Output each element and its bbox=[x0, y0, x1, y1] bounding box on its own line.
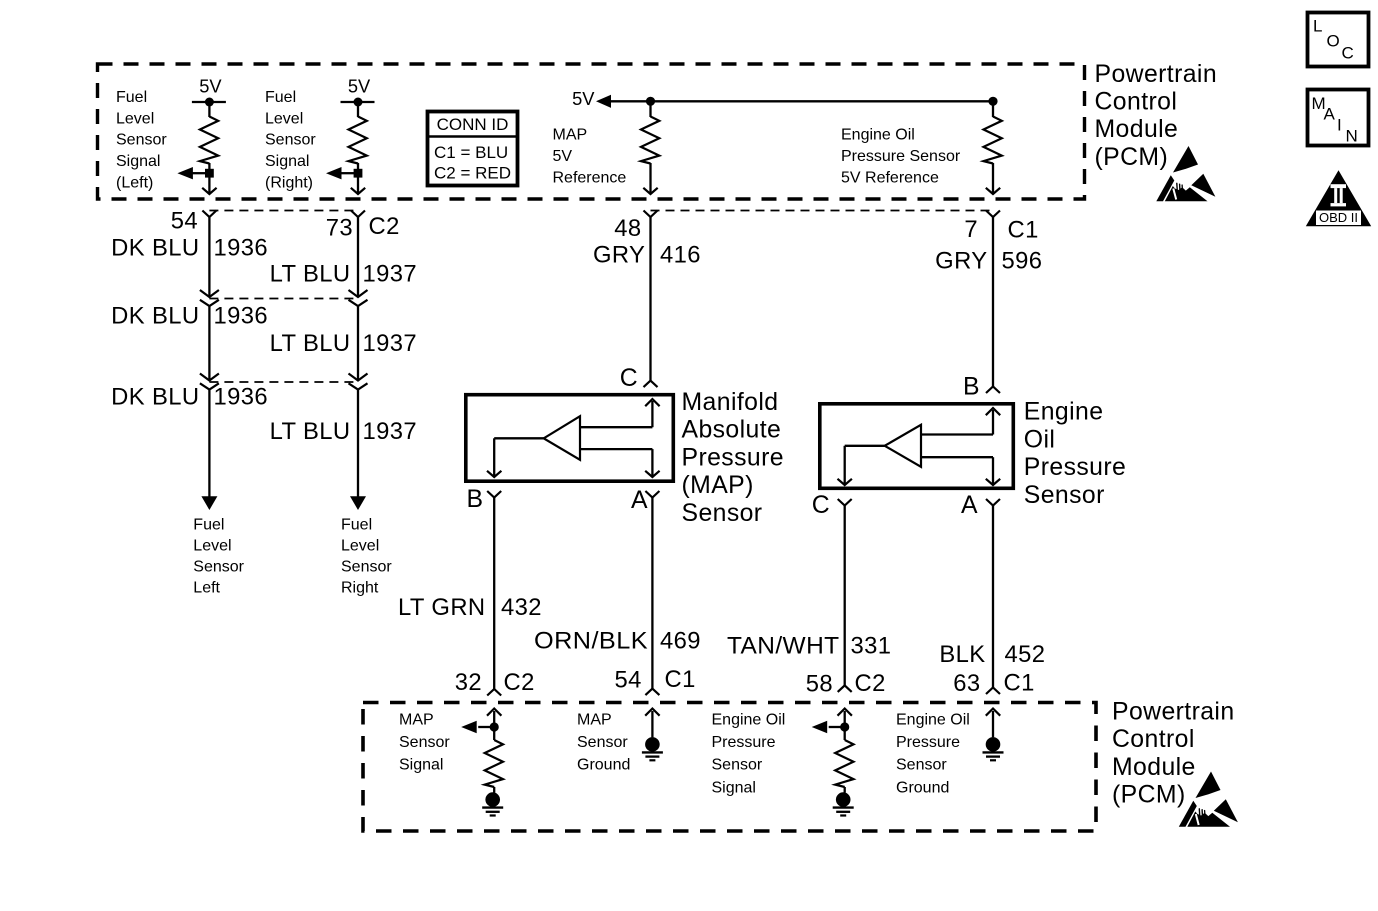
svg-text:DK BLU: DK BLU bbox=[111, 235, 199, 262]
svg-text:1937: 1937 bbox=[363, 261, 418, 288]
svg-text:Engine Oil: Engine Oil bbox=[841, 127, 915, 144]
svg-text:N: N bbox=[1346, 127, 1358, 146]
svg-text:Sensor: Sensor bbox=[712, 757, 763, 774]
svg-text:LT GRN: LT GRN bbox=[398, 594, 485, 621]
svg-text:469: 469 bbox=[660, 628, 701, 655]
svg-text:Pressure: Pressure bbox=[1024, 454, 1126, 481]
svg-text:B: B bbox=[467, 486, 484, 513]
svg-text:A: A bbox=[631, 487, 648, 514]
svg-text:Signal: Signal bbox=[265, 153, 309, 170]
svg-text:Signal: Signal bbox=[399, 757, 443, 774]
svg-text:Sensor: Sensor bbox=[116, 132, 167, 149]
svg-text:Fuel: Fuel bbox=[193, 516, 224, 533]
svg-text:GRY: GRY bbox=[935, 248, 987, 275]
svg-text:5V: 5V bbox=[572, 88, 595, 109]
svg-text:Reference: Reference bbox=[553, 169, 627, 186]
svg-text:Sensor: Sensor bbox=[896, 757, 947, 774]
svg-text:32: 32 bbox=[455, 669, 482, 696]
svg-text:O: O bbox=[1327, 32, 1340, 51]
svg-text:596: 596 bbox=[1002, 248, 1043, 275]
svg-text:1937: 1937 bbox=[363, 330, 418, 357]
svg-text:(PCM): (PCM) bbox=[1112, 782, 1186, 809]
svg-text:Engine Oil: Engine Oil bbox=[712, 712, 786, 729]
svg-text:(MAP): (MAP) bbox=[682, 472, 754, 499]
svg-text:OBD II: OBD II bbox=[1319, 210, 1358, 225]
svg-text:Pressure: Pressure bbox=[682, 444, 784, 471]
svg-text:1936: 1936 bbox=[214, 384, 269, 411]
svg-text:C2: C2 bbox=[504, 669, 535, 696]
svg-text:Right: Right bbox=[341, 579, 379, 596]
svg-text:1936: 1936 bbox=[214, 303, 269, 330]
svg-text:Level: Level bbox=[265, 110, 303, 127]
svg-text:LT BLU: LT BLU bbox=[270, 418, 351, 445]
svg-text:Level: Level bbox=[341, 537, 379, 554]
svg-text:MAP: MAP bbox=[553, 127, 588, 144]
svg-text:73: 73 bbox=[326, 215, 353, 242]
svg-text:Pressure: Pressure bbox=[896, 734, 960, 751]
svg-text:LT BLU: LT BLU bbox=[270, 330, 351, 357]
svg-text:TAN/WHT: TAN/WHT bbox=[727, 633, 840, 660]
svg-text:C: C bbox=[812, 492, 830, 519]
svg-text:Pressure Sensor: Pressure Sensor bbox=[841, 148, 961, 165]
svg-text:Absolute: Absolute bbox=[682, 417, 782, 444]
svg-text:Powertrain: Powertrain bbox=[1095, 61, 1218, 88]
svg-text:L: L bbox=[1313, 17, 1322, 36]
svg-text:C1 = BLU: C1 = BLU bbox=[434, 143, 508, 162]
svg-text:(Left): (Left) bbox=[116, 174, 153, 191]
svg-text:Fuel: Fuel bbox=[341, 516, 372, 533]
svg-text:ORN/BLK: ORN/BLK bbox=[534, 628, 648, 655]
svg-text:GRY: GRY bbox=[593, 242, 645, 269]
svg-text:Powertrain: Powertrain bbox=[1112, 699, 1235, 726]
svg-text:63: 63 bbox=[953, 670, 980, 697]
svg-text:MAP: MAP bbox=[399, 712, 434, 729]
svg-text:CONN ID: CONN ID bbox=[437, 115, 509, 134]
svg-text:54: 54 bbox=[615, 667, 642, 694]
svg-text:Engine Oil: Engine Oil bbox=[896, 712, 970, 729]
svg-text:Sensor: Sensor bbox=[577, 734, 628, 751]
svg-text:I: I bbox=[1337, 116, 1342, 135]
svg-text:BLK: BLK bbox=[939, 641, 985, 668]
svg-text:LT BLU: LT BLU bbox=[270, 261, 351, 288]
svg-text:C2 = RED: C2 = RED bbox=[434, 164, 511, 183]
svg-text:DK BLU: DK BLU bbox=[111, 303, 199, 330]
svg-text:Module: Module bbox=[1095, 116, 1179, 143]
svg-text:1937: 1937 bbox=[363, 418, 418, 445]
svg-text:Sensor: Sensor bbox=[399, 734, 450, 751]
svg-text:C: C bbox=[620, 365, 638, 392]
svg-text:Sensor: Sensor bbox=[265, 132, 316, 149]
svg-text:DK BLU: DK BLU bbox=[111, 384, 199, 411]
svg-text:C1: C1 bbox=[1008, 216, 1039, 243]
svg-text:54: 54 bbox=[171, 207, 198, 234]
svg-text:Fuel: Fuel bbox=[116, 89, 147, 106]
svg-text:Pressure: Pressure bbox=[712, 734, 776, 751]
svg-text:Ground: Ground bbox=[896, 779, 949, 796]
svg-text:Oil: Oil bbox=[1024, 426, 1056, 453]
svg-text:Ground: Ground bbox=[577, 757, 630, 774]
svg-text:C2: C2 bbox=[855, 670, 886, 697]
svg-text:Signal: Signal bbox=[116, 153, 160, 170]
svg-text:(PCM): (PCM) bbox=[1095, 144, 1169, 171]
svg-text:Left: Left bbox=[193, 579, 220, 596]
svg-text:Fuel: Fuel bbox=[265, 89, 296, 106]
svg-text:C1: C1 bbox=[1004, 670, 1035, 697]
svg-text:Level: Level bbox=[193, 537, 231, 554]
svg-text:7: 7 bbox=[964, 216, 978, 243]
svg-text:1936: 1936 bbox=[214, 235, 269, 262]
svg-text:Control: Control bbox=[1112, 726, 1195, 753]
svg-text:MAP: MAP bbox=[577, 712, 612, 729]
svg-text:Sensor: Sensor bbox=[1024, 482, 1105, 509]
svg-text:58: 58 bbox=[806, 670, 833, 697]
svg-text:5V Reference: 5V Reference bbox=[841, 169, 939, 186]
svg-text:331: 331 bbox=[851, 633, 892, 660]
svg-text:Sensor: Sensor bbox=[193, 558, 244, 575]
svg-text:B: B bbox=[963, 374, 980, 401]
svg-text:48: 48 bbox=[614, 215, 641, 242]
svg-text:C2: C2 bbox=[369, 213, 400, 240]
svg-text:(Right): (Right) bbox=[265, 174, 313, 191]
svg-text:C: C bbox=[1342, 44, 1354, 63]
svg-text:Sensor: Sensor bbox=[341, 558, 392, 575]
svg-text:A: A bbox=[1324, 105, 1336, 124]
svg-text:A: A bbox=[961, 492, 978, 519]
svg-text:Module: Module bbox=[1112, 754, 1196, 781]
svg-text:5V: 5V bbox=[348, 75, 371, 96]
svg-text:Signal: Signal bbox=[712, 779, 756, 796]
svg-text:5V: 5V bbox=[553, 148, 573, 165]
svg-text:416: 416 bbox=[660, 242, 701, 269]
svg-text:Level: Level bbox=[116, 110, 154, 127]
svg-text:Sensor: Sensor bbox=[682, 500, 763, 527]
svg-text:Control: Control bbox=[1095, 89, 1178, 116]
svg-text:432: 432 bbox=[501, 594, 542, 621]
svg-text:Engine: Engine bbox=[1024, 399, 1104, 426]
svg-text:C1: C1 bbox=[665, 666, 696, 693]
svg-text:5V: 5V bbox=[199, 75, 222, 96]
svg-text:452: 452 bbox=[1005, 641, 1046, 668]
svg-text:Manifold: Manifold bbox=[682, 389, 779, 416]
